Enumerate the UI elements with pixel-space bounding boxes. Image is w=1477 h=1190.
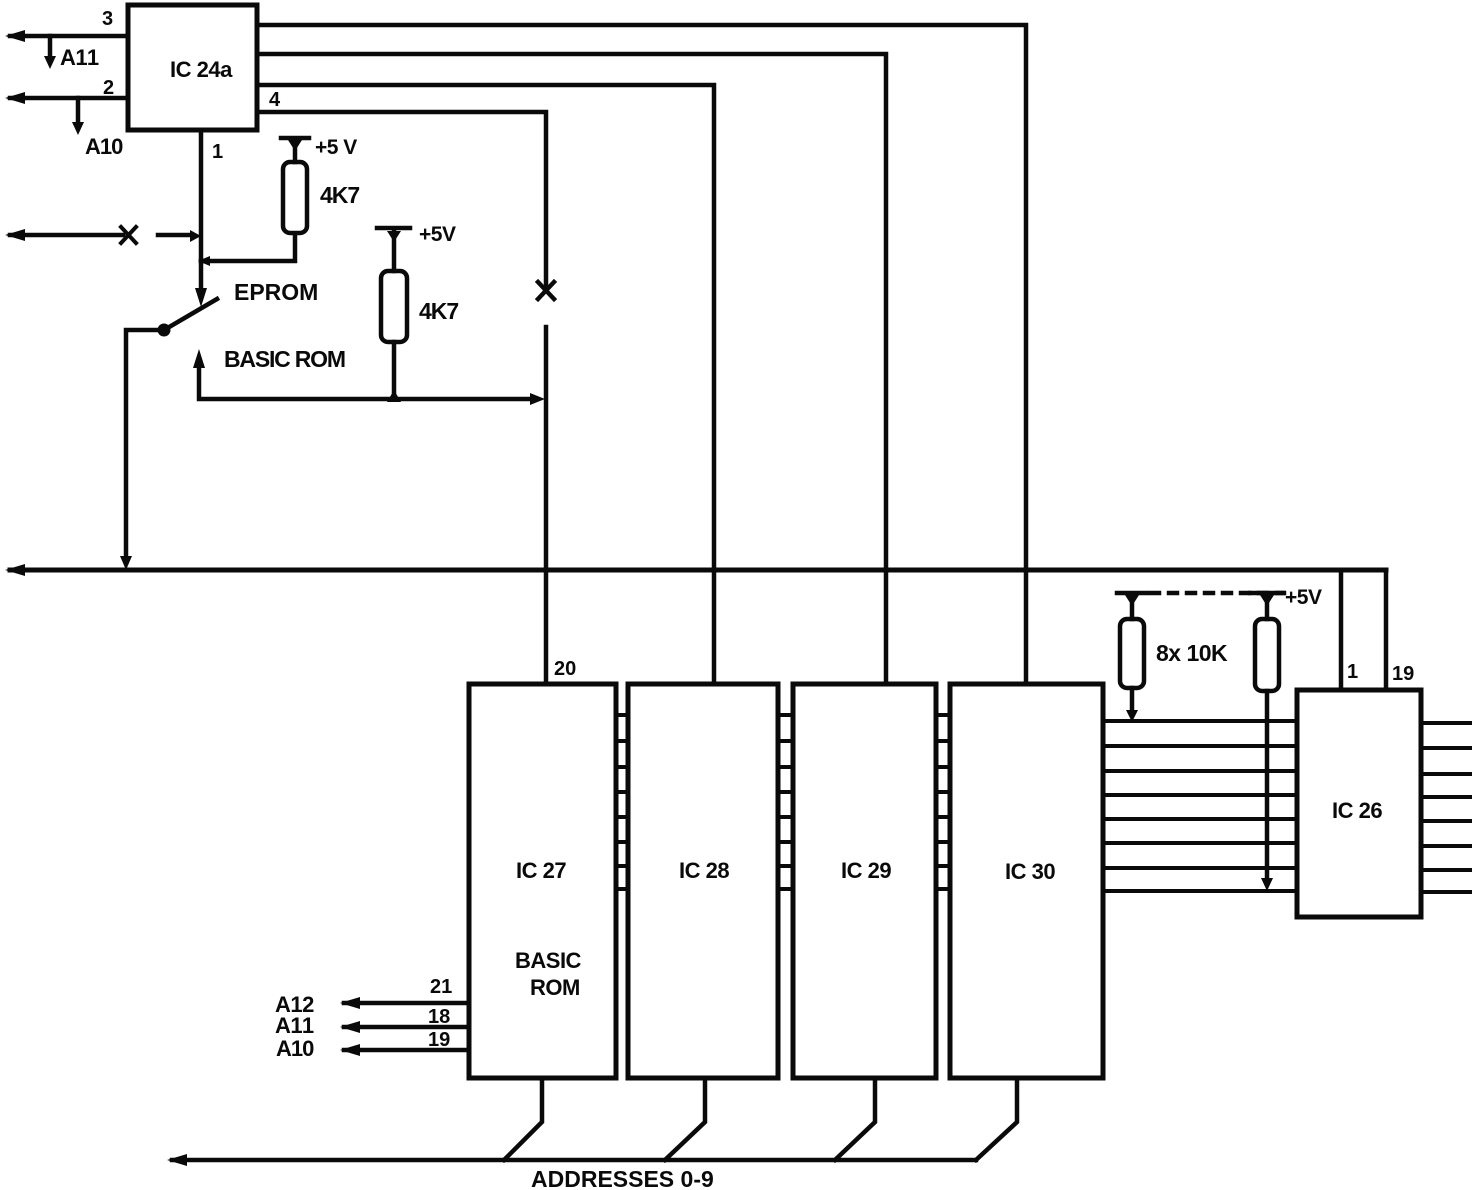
wire R4 down to last line <box>1265 691 1270 882</box>
svg-text:4: 4 <box>269 89 281 111</box>
resistor R1 4K7 <box>283 162 307 233</box>
wire pin2 input <box>10 96 128 101</box>
wire addresses bus <box>172 1158 976 1163</box>
wire IC29 bottom <box>835 1078 875 1160</box>
svg-text:EPROM: EPROM <box>234 279 318 305</box>
svg-text:ROM: ROM <box>530 975 580 1000</box>
arrow left pin2 <box>5 92 25 104</box>
svg-text:A10: A10 <box>85 134 123 159</box>
svg-text:21: 21 <box>430 976 452 998</box>
wire pin1 vertical <box>199 130 204 290</box>
ladder rungs IC29-IC30 <box>936 715 950 889</box>
svg-text:IC 30: IC 30 <box>1005 859 1055 884</box>
svg-text:3: 3 <box>102 8 113 30</box>
wire IC28 bottom <box>665 1078 705 1160</box>
wire pin4 to X break <box>257 112 546 287</box>
svg-text:A11: A11 <box>60 45 99 70</box>
IC 26 box <box>1297 690 1421 917</box>
wire A10 input <box>344 1048 469 1053</box>
wire output B to IC29 <box>257 54 886 686</box>
dashed +5V link <box>1151 591 1284 596</box>
resistor R4 10K <box>1255 619 1279 691</box>
wire A11 input <box>344 1025 469 1030</box>
wire switch to bus <box>126 330 164 558</box>
IC26 right pins <box>1421 723 1470 892</box>
svg-text:19: 19 <box>1392 663 1414 685</box>
wire R2 bottom to node <box>392 342 397 399</box>
IC 27 box <box>469 684 616 1078</box>
svg-text:+5V: +5V <box>419 223 456 246</box>
IC 29 box <box>793 684 936 1078</box>
wire IC27 bottom <box>504 1078 542 1160</box>
svg-text:BASIC ROM: BASIC ROM <box>224 346 345 372</box>
wire IC26 pin1 <box>1339 570 1344 690</box>
svg-text:2: 2 <box>103 77 114 99</box>
data lines IC30 to IC26 <box>1103 721 1297 891</box>
arrow BASIC ROM contact up <box>193 349 205 368</box>
svg-text:4K7: 4K7 <box>320 182 359 208</box>
svg-text:A11: A11 <box>275 1013 314 1038</box>
wire bus horizontal <box>10 568 1386 573</box>
wire stub to pin1 node <box>158 233 192 238</box>
ladder rungs IC27-IC28 <box>616 715 628 889</box>
svg-text:8x 10K: 8x 10K <box>1156 640 1228 666</box>
wire pin3 input <box>10 34 128 39</box>
wire broken input left <box>10 233 123 238</box>
+5V bar R2 <box>377 226 410 231</box>
svg-text:20: 20 <box>554 658 576 680</box>
IC 30 box <box>950 684 1103 1078</box>
IC 24a box U24 <box>128 5 257 130</box>
X break right <box>538 282 554 299</box>
ladder rungs IC28-IC29 <box>778 715 793 889</box>
wire IC26 pin19 <box>1384 570 1389 690</box>
arrow left pin3 <box>5 30 25 42</box>
svg-text:1: 1 <box>1347 661 1358 683</box>
wire pin20 vertical <box>544 327 549 686</box>
svg-text:A10: A10 <box>276 1036 314 1061</box>
svg-text:19: 19 <box>428 1029 450 1051</box>
wire output C to IC28 <box>257 85 714 686</box>
wire basic rom node <box>199 366 532 399</box>
node A10 tap <box>76 98 81 124</box>
X break left <box>121 227 136 243</box>
wire A12 input <box>344 1001 469 1006</box>
arrow EPROM contact down <box>195 288 207 307</box>
svg-text:IC 29: IC 29 <box>841 858 891 883</box>
svg-text:IC 24a: IC 24a <box>170 57 233 82</box>
wire R3 to line <box>1130 688 1135 714</box>
svg-text:IC 26: IC 26 <box>1332 798 1382 823</box>
switch arm SW1 <box>164 299 217 330</box>
+5V bar R1 <box>281 136 309 141</box>
svg-text:+5V: +5V <box>1285 586 1322 609</box>
resistor R3 10K <box>1120 619 1144 688</box>
wire IC30 bottom <box>976 1078 1017 1160</box>
wire output A to IC30 <box>257 25 1026 686</box>
svg-text:IC 28: IC 28 <box>679 858 729 883</box>
svg-text:+5 V: +5 V <box>315 136 357 159</box>
IC 28 box <box>628 684 778 1078</box>
wire resistor R1 bottom link <box>201 233 295 261</box>
svg-text:18: 18 <box>428 1006 450 1028</box>
svg-text:ADDRESSES 0-9: ADDRESSES 0-9 <box>531 1166 714 1190</box>
svg-text:4K7: 4K7 <box>419 298 458 324</box>
resistor R2 4K7 <box>381 271 407 342</box>
svg-text:BASIC: BASIC <box>515 948 582 973</box>
svg-text:1: 1 <box>212 141 223 163</box>
node A11 tap <box>48 36 53 58</box>
svg-text:IC 27: IC 27 <box>516 858 566 883</box>
